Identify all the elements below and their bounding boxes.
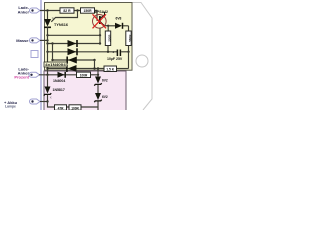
svg-text:100R: 100R [80, 74, 88, 78]
wire Masse stub [40, 39, 48, 41]
diode D4 (left) [67, 65, 77, 72]
junction dot C4 [99, 42, 101, 44]
svg-text:47R: 47R [58, 106, 65, 110]
diode D6 1N4004 (right) [53, 72, 65, 83]
diode D1 (right) [68, 40, 78, 47]
junction dot H2 [93, 59, 95, 61]
svg-text:1N5817: 1N5817 [53, 88, 65, 92]
junction dot C1 [46, 42, 48, 44]
junction dot A2 [76, 9, 78, 11]
svg-text:10µF 25V: 10µF 25V [107, 57, 123, 61]
svg-text:560R: 560R [128, 34, 132, 42]
junction dot D [46, 51, 48, 53]
resistor R2 150R [81, 8, 95, 13]
wire row4 [48, 68, 105, 70]
module box upper (yellow) [45, 3, 133, 71]
wire row1 [48, 43, 101, 45]
resistor R8 (bottom right) [69, 105, 81, 111]
wire row3 [53, 59, 95, 61]
svg-text:Prozent: Prozent [14, 74, 29, 79]
svg-text:1N4004: 1N4004 [53, 79, 65, 83]
diode D3 (left) [67, 57, 77, 64]
junction dot Masse [46, 39, 48, 41]
junction dot I1 [46, 67, 48, 69]
label Lade-Anker (lower) [14, 66, 29, 79]
junction dot I3 [97, 67, 99, 69]
bus line [40, 0, 42, 110]
junction dot B2 [99, 34, 101, 36]
connector tag X1 [30, 8, 41, 13]
wire bottom [40, 101, 48, 103]
capacitor C1 10uF 25V [107, 50, 129, 62]
svg-text:4x1N4004: 4x1N4004 [45, 63, 66, 67]
wire row2 [48, 51, 118, 53]
wire bottom drop [48, 102, 99, 108]
junction dot emitter [107, 25, 109, 27]
junction dot I2 [93, 67, 95, 69]
diode D9 1N5817 (down) [44, 75, 65, 102]
connector tag X4 [30, 99, 41, 104]
diode D2 (right) [68, 48, 78, 55]
svg-text:K: K [50, 96, 52, 100]
junction dot F [107, 51, 109, 53]
zener D7 6V2 [94, 77, 108, 94]
junction dot J1 [46, 74, 48, 76]
rail x100 [99, 28, 101, 44]
resistor R4 560R (vertical) [126, 31, 132, 52]
svg-text:Masse: Masse [16, 38, 29, 43]
rail x52.5 [52, 44, 54, 61]
thyristor TH1 TYN616 [44, 11, 68, 35]
junction dot H1 [51, 59, 53, 61]
resistor R5 1,5K [104, 52, 129, 72]
transistor Q1 MPSA42 (crossed out) [93, 10, 109, 28]
rail x94.5 [94, 60, 96, 69]
wire thyristor gate [51, 11, 77, 22]
svg-text:82 R: 82 R [63, 9, 71, 13]
rail left x47.5 [47, 35, 49, 75]
junction dot J2 [97, 74, 99, 76]
resistor R7 (bottom left) [55, 105, 67, 111]
svg-text:Lampe: Lampe [5, 105, 16, 109]
resistor R3 220R (vertical) [105, 31, 111, 52]
label Lade-Anker (top) [18, 5, 30, 15]
svg-text:6V8: 6V8 [116, 17, 122, 21]
junction dot C2 [51, 42, 53, 44]
connector tag X3 [29, 72, 40, 77]
sheet frame outline [132, 3, 152, 111]
junction dot B1 [46, 34, 48, 36]
wire emitter to R3 [107, 26, 109, 31]
junction dot A1 [46, 9, 48, 11]
zener D8 6V2 [94, 93, 108, 110]
mounting hole pad [136, 55, 148, 67]
label + Akku [4, 100, 18, 109]
svg-text:1,5 K: 1,5 K [106, 67, 114, 71]
zener D5 6V8 [108, 17, 128, 29]
resistor R6 100R (pink row) [77, 72, 99, 77]
bus tap square [31, 51, 38, 58]
svg-text:TYN616: TYN616 [54, 23, 68, 27]
wire ladder top [48, 34, 101, 36]
svg-text:150R: 150R [83, 9, 92, 13]
wire zener column top [97, 69, 99, 78]
wire top net [40, 10, 97, 12]
svg-text:6V2: 6V2 [102, 95, 108, 99]
label box 4x1N4004 [44, 62, 67, 67]
connector tag X2 [30, 38, 41, 43]
label Masse [16, 38, 29, 43]
junction dot G [127, 51, 129, 53]
junction dot K1 [46, 100, 48, 102]
svg-text:100R: 100R [71, 106, 79, 110]
svg-text:Anker: Anker [18, 10, 30, 15]
module box lower (pink) [44, 71, 126, 111]
svg-text:6V2: 6V2 [102, 78, 108, 82]
svg-text:+: + [112, 51, 114, 55]
wire pink row [39, 74, 77, 76]
svg-text:220R: 220R [107, 34, 111, 42]
wire zener to R4 [128, 26, 130, 31]
resistor R1 82R [60, 8, 74, 13]
